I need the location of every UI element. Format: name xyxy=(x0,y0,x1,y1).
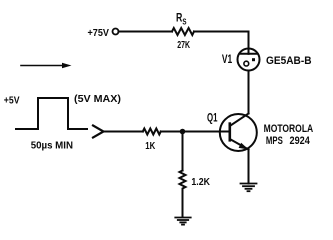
arrow (signal direction) xyxy=(21,63,72,68)
wire arrowhead to 1K xyxy=(104,131,143,133)
resistor RS xyxy=(172,28,194,35)
svg-text:2924: 2924 xyxy=(290,135,311,147)
wire Rs to lamp xyxy=(194,32,249,49)
wire emitter to ground xyxy=(248,150,250,184)
svg-text:MOTOROLA: MOTOROLA xyxy=(264,123,314,135)
wire 1.2K to ground xyxy=(182,192,184,217)
resistor 1K xyxy=(143,129,161,135)
svg-text:+5V: +5V xyxy=(4,95,20,107)
svg-text:RS: RS xyxy=(176,11,187,27)
svg-text:+75V: +75V xyxy=(88,27,110,39)
resistor 1.2K xyxy=(180,171,186,193)
svg-text:Q1: Q1 xyxy=(207,113,218,125)
junction node xyxy=(180,129,186,135)
ground (emitter) xyxy=(241,184,257,192)
svg-text:V1: V1 xyxy=(222,52,233,66)
wire +75V to Rs xyxy=(119,31,173,33)
svg-text:GE5AB-B: GE5AB-B xyxy=(266,55,312,67)
wire 1K to base xyxy=(161,131,230,133)
svg-text:50µs MIN: 50µs MIN xyxy=(31,140,73,152)
node +75V terminal xyxy=(113,29,119,35)
input arrowhead xyxy=(93,126,104,138)
svg-text:27K: 27K xyxy=(177,39,190,51)
svg-text:(5V MAX): (5V MAX) xyxy=(74,93,121,105)
wire lamp to collector xyxy=(248,71,250,114)
transistor Q1 xyxy=(220,114,257,152)
svg-text:MPS: MPS xyxy=(266,135,283,147)
lamp V1 (neon glow lamp GE5AB-B) xyxy=(238,49,260,71)
ground (below 1.2K) xyxy=(175,218,190,225)
wire junction to 1.2K xyxy=(182,132,184,171)
svg-text:1.2K: 1.2K xyxy=(191,176,210,188)
svg-text:1K: 1K xyxy=(145,140,155,152)
pulse waveform xyxy=(16,98,87,129)
